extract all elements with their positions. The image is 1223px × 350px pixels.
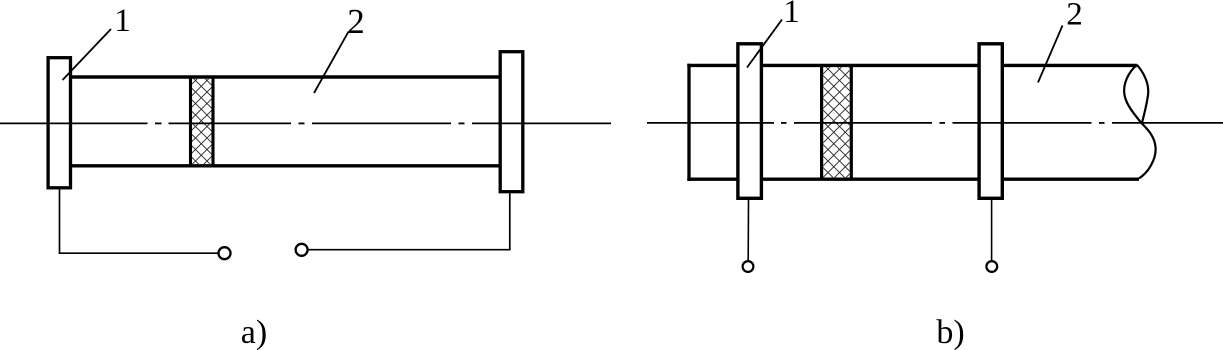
terminal circle 1 (diagram b) — [743, 261, 754, 272]
terminal circle 2 (diagram b) — [986, 261, 997, 272]
svg-text:1: 1 — [783, 0, 800, 30]
shaft 2 bottom outline (diagram b) — [687, 177, 1139, 180]
wire from left flange (diagram a) — [60, 190, 219, 254]
shaft 2 top outline (diagram b) — [687, 64, 1137, 67]
shaft break S-curve (diagram b) — [1124, 65, 1156, 179]
leader line label 1 (diagram b) — [747, 20, 782, 68]
tube 2 bottom outline (diagram a) — [71, 164, 501, 167]
leader line label 2 (diagram a) — [314, 31, 349, 93]
hatched insulation band (diagram a) — [191, 77, 214, 166]
svg-text:1: 1 — [114, 3, 131, 39]
electrode flange 1 left (diagram a) — [48, 58, 70, 188]
tube 2 top outline (diagram a) — [71, 75, 501, 78]
leader line label 2 (diagram b) — [1038, 26, 1063, 83]
wire from ring 2 (diagram b) — [991, 200, 993, 260]
leader line label 1 (diagram a) — [63, 29, 112, 80]
svg-text:b): b) — [936, 314, 964, 350]
electrode flange right (diagram a) — [500, 52, 523, 192]
wire from right flange (diagram a) — [308, 193, 510, 249]
centerline (diagram b) — [647, 122, 1223, 124]
electrode ring 1 (diagram b) — [738, 44, 762, 199]
centerline (diagram a) — [0, 122, 611, 124]
terminal circle left (diagram a) — [219, 247, 231, 259]
svg-text:2: 2 — [1066, 0, 1083, 33]
shaft left end edge (diagram b) — [687, 64, 690, 181]
wire from ring 1 (diagram b) — [747, 200, 749, 260]
svg-text:a): a) — [241, 314, 267, 350]
electrode ring 2 (diagram b) — [979, 44, 1002, 199]
hatched insulation band (diagram b) — [822, 65, 852, 179]
terminal circle right (diagram a) — [296, 244, 308, 256]
svg-text:2: 2 — [347, 2, 365, 41]
